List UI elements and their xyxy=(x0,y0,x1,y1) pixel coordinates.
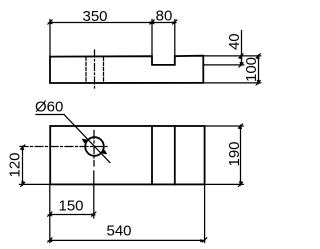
dimension line 120 xyxy=(22,147,24,184)
svg-text:120: 120 xyxy=(7,152,24,177)
horizontal center line of hole xyxy=(20,146,107,148)
arrowheads dim 100 xyxy=(257,54,260,59)
hidden line hole right xyxy=(103,57,105,83)
arrowheads leader diameter 60 xyxy=(82,139,88,144)
dimension line 190 xyxy=(240,126,242,184)
arrowheads dim 350 xyxy=(47,21,52,24)
arrowheads dim 190 xyxy=(239,124,242,129)
leader underline of Ø60 xyxy=(36,114,64,116)
dimension line 540 xyxy=(50,239,205,241)
extension plan bottom right for dim 190 xyxy=(205,183,244,185)
svg-text:80: 80 xyxy=(156,8,173,25)
arrowheads dim 150 xyxy=(47,213,52,216)
extension line bar bottom to right for dim 100 xyxy=(203,82,260,84)
hole circle xyxy=(85,137,104,156)
arrowheads dim 40 xyxy=(239,54,242,59)
extension line slot left for dims 350/80 xyxy=(151,20,153,57)
dimension line 150 xyxy=(50,214,94,216)
extension plan top right for dim 190 xyxy=(205,125,244,127)
extension plan bottom left for dim 120 xyxy=(20,183,51,185)
svg-text:100: 100 xyxy=(243,57,260,82)
extension line slot bottom to right for dim 40 xyxy=(203,64,243,66)
extension hole center down for dim 150 xyxy=(93,171,95,218)
dimension line 350 xyxy=(50,22,152,24)
plan view outline xyxy=(50,126,204,184)
leader diagonal of Ø60 xyxy=(64,115,110,163)
arrowheads dim 80 xyxy=(149,21,154,24)
serif ticks on arrow tips xyxy=(48,20,52,24)
svg-text:540: 540 xyxy=(106,223,131,240)
slot edge right in plan xyxy=(174,126,176,184)
dimension line 100 xyxy=(258,56,260,83)
svg-text:150: 150 xyxy=(58,198,83,215)
arrowheads dim 120 xyxy=(21,145,24,150)
slot edge left in plan xyxy=(151,126,153,184)
dimension line 40 xyxy=(241,31,243,65)
svg-text:190: 190 xyxy=(226,141,243,166)
front view outline with slot xyxy=(50,56,203,83)
svg-text:40: 40 xyxy=(226,33,243,50)
svg-text:Ø60: Ø60 xyxy=(35,99,63,116)
hidden line hole left xyxy=(85,57,87,83)
svg-text:350: 350 xyxy=(82,8,107,25)
extension plan right edge down for dim 540 xyxy=(204,184,206,242)
arrowheads dim 540 xyxy=(47,239,52,242)
extension line left edge for dim 350 xyxy=(49,20,51,57)
extension plan left edge down for dims 150/540 xyxy=(49,184,51,242)
extension line bar top to right for dims 40/100 xyxy=(203,55,260,57)
dimension line 80 xyxy=(152,22,175,24)
extension line slot right for dim 80 xyxy=(174,20,176,57)
center line hole front view xyxy=(94,50,96,90)
vertical center line of hole xyxy=(93,131,95,167)
